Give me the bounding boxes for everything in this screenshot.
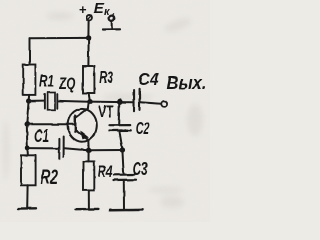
node C junction [25,145,30,150]
crystal ZQ [45,93,57,110]
junction supply/rail [86,35,91,40]
wire node B to node C [26,124,29,147]
wire base [27,123,75,125]
svg-text:C2: C2 [136,118,150,138]
wire R4 to ground [88,190,90,208]
transistor VT [68,102,97,150]
supply terminal - [109,16,114,21]
svg-text:C3: C3 [133,159,148,179]
svg-text:R3: R3 [99,68,113,87]
wire crystal to collector node [58,100,89,103]
resistor R2 [21,155,36,185]
emitter-line right junction [120,147,125,152]
wire C4 to output [141,102,162,104]
wire node A to crystal [29,100,44,102]
junction C2 tap [117,99,123,105]
svg-text:VT: VT [98,103,114,121]
wire rail to R1 [29,38,31,64]
capacitor C1 [59,137,63,160]
svg-text:Вых.: Вых. [167,73,207,93]
capacitor C3 [114,175,137,181]
wire supply terminal to rail [87,21,89,37]
wire node A to node B [27,101,29,124]
wire terminal - lead [111,21,113,28]
svg-text:+: + [79,2,87,17]
collector node junction [87,99,92,104]
supply terminal + [87,15,92,20]
svg-text:R2: R2 [41,167,59,189]
capacitor C4 [134,89,140,111]
ground under R4 [76,208,99,211]
wire emitter node to C2 node [88,149,123,151]
resistor R4 [83,161,94,190]
top rail wire [30,37,89,39]
wire C2 node to C3 [122,150,123,174]
ground under C3 [110,209,144,212]
wire R3 to collector node [89,93,90,100]
output terminal [161,101,167,107]
chassis bar of - terminal [103,28,121,30]
wire collector node to C4 [90,101,133,104]
supply label +Ek [79,1,111,18]
node B junction [25,122,30,127]
svg-text:R4: R4 [98,162,113,181]
node A junction [26,98,31,103]
resistor R1 [23,65,35,95]
resistor R3 [83,66,94,93]
svg-text:C4: C4 [138,69,159,89]
svg-text:R1: R1 [39,72,54,91]
wire node C to R2 [26,148,29,155]
wire emitter to R4 [88,150,90,161]
wire C1 to emitter node [65,148,88,150]
paper background [0,0,210,222]
wire R1 to node A [28,95,31,100]
wire C2 tap to C2 [118,102,121,125]
wire node C to C1 [27,147,58,149]
wire R2 to ground [26,185,28,208]
ground under R2 [18,207,36,210]
capacitor C2 [109,125,130,130]
emitter node junction [86,148,91,153]
svg-text:C1: C1 [34,126,49,146]
svg-text:ZQ: ZQ [59,74,76,93]
wire C3 to ground [123,181,125,209]
wire C2 to emitter line [120,132,123,149]
wire rail to R3 [87,38,89,66]
